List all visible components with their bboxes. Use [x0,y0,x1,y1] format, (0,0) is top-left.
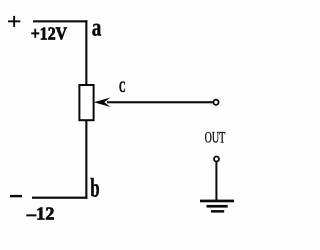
svg-text:+12V: +12V [31,24,67,44]
svg-text:b: b [90,174,99,203]
svg-text:C: C [119,79,126,96]
svg-text:OUT: OUT [205,130,226,147]
svg-text:–12: –12 [26,204,55,224]
svg-text:a: a [92,12,102,41]
